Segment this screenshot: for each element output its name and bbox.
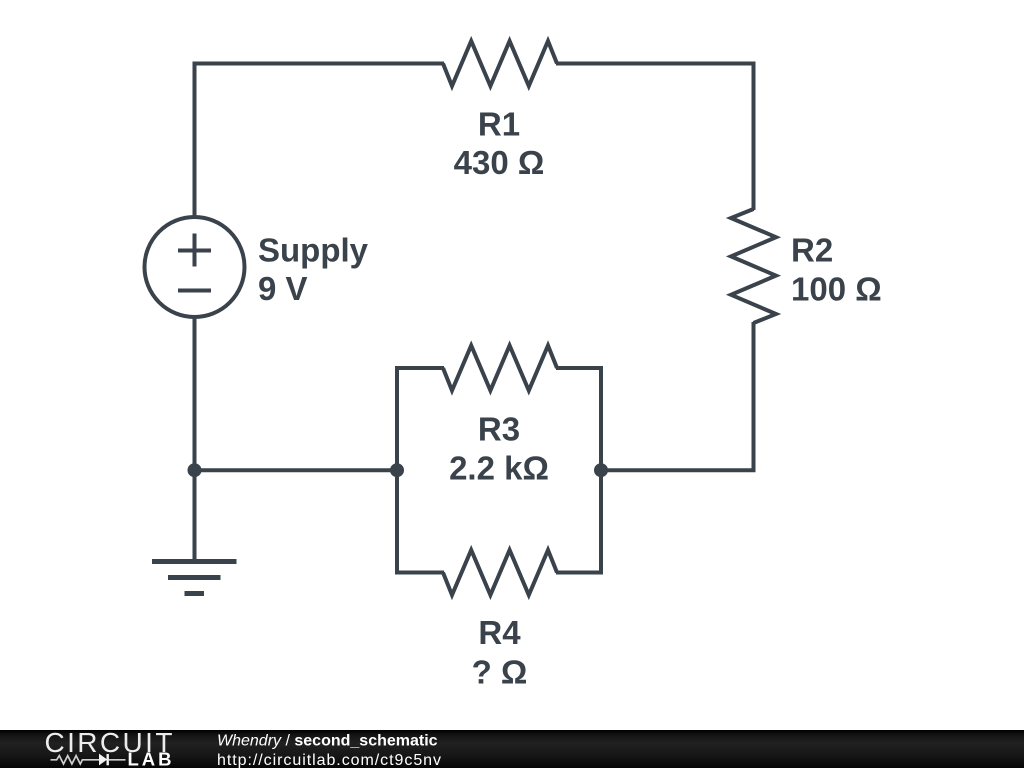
CircuitLab logo diode symbol — [99, 754, 126, 766]
wire lead from left branch to R4 — [395, 571, 444, 575]
CircuitLab logo LAB text — [128, 748, 175, 768]
wire from R1 to top-right corner down to R2 — [556, 64, 754, 211]
footer author / schematic title — [217, 732, 438, 749]
svg-text:R1: R1 — [478, 105, 520, 142]
resistor R2 — [731, 209, 776, 323]
resistor R1 — [443, 41, 557, 86]
wire lead from left branch to R3 — [395, 366, 444, 370]
ground bar 3 — [185, 591, 205, 596]
svg-text:Supply: Supply — [258, 231, 369, 268]
svg-text:9 V: 9 V — [258, 270, 308, 307]
svg-text:Whendry / second_schematic: Whendry / second_schematic — [217, 732, 438, 749]
svg-text:R4: R4 — [478, 614, 521, 651]
svg-text:430 Ω: 430 Ω — [454, 144, 545, 181]
wire lead from R3 to right branch — [556, 366, 603, 370]
label R2 designator — [791, 232, 833, 269]
label supply name — [258, 231, 369, 268]
svg-text:100 Ω: 100 Ω — [791, 271, 882, 308]
voltage source V1 circle — [145, 217, 245, 317]
label R3 designator — [478, 411, 520, 448]
wire left side of parallel branch — [395, 368, 399, 573]
svg-text:R3: R3 — [478, 411, 520, 448]
voltage source plus sign — [178, 234, 211, 267]
svg-text:LAB: LAB — [128, 748, 175, 768]
ground bar 2 — [168, 575, 221, 580]
node B junction dot — [390, 463, 404, 477]
wire lead from R4 to right branch — [556, 571, 603, 575]
label R4 value unknown ohm — [472, 654, 528, 691]
resistor R4 — [443, 550, 557, 595]
svg-text:2.2 kΩ: 2.2 kΩ — [449, 449, 549, 486]
label R4 designator — [478, 614, 521, 651]
wire from supply + terminal to top-left corner and across to R1 — [195, 64, 445, 218]
CircuitLab logo resistor symbol — [51, 756, 99, 764]
wire from node B to node A — [195, 468, 398, 472]
svg-text:http://circuitlab.com/ct9c5nv: http://circuitlab.com/ct9c5nv — [217, 752, 442, 768]
wire right side of parallel branch — [599, 368, 603, 573]
voltage source minus sign — [178, 289, 211, 293]
wire from R2 down to bottom-right corner to node C — [601, 322, 754, 470]
label R1 designator — [478, 105, 520, 142]
label R1 value 430 ohm — [454, 144, 545, 181]
footer watermark bar — [0, 730, 1024, 768]
svg-text:? Ω: ? Ω — [472, 654, 528, 691]
ground bar 1 — [152, 559, 237, 564]
label supply value 9 V — [258, 270, 308, 307]
footer url — [217, 752, 442, 768]
wire from supply - terminal down to node A — [193, 317, 197, 470]
node A junction dot — [188, 463, 202, 477]
node C junction dot — [594, 463, 608, 477]
label R3 value 2.2 kohm — [449, 449, 549, 486]
resistor R3 — [443, 346, 557, 391]
label R2 value 100 ohm — [791, 271, 882, 308]
svg-text:R2: R2 — [791, 232, 833, 269]
wire from node A down to ground — [193, 470, 197, 561]
CircuitLab logo CIRCUIT text — [45, 727, 175, 758]
